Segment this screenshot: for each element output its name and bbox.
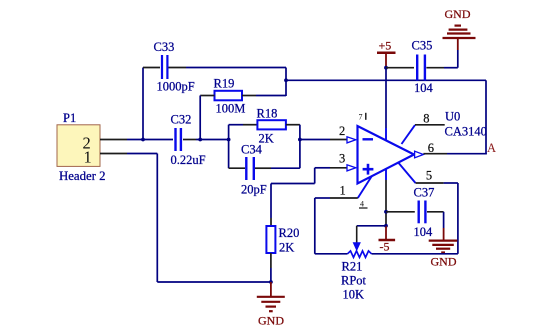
svg-text:R18: R18 xyxy=(257,107,278,121)
capacitor C34 xyxy=(241,143,267,197)
wire C37 right to gnd xyxy=(427,211,444,213)
svg-text:20pF: 20pF xyxy=(241,183,267,197)
resistor R19 xyxy=(214,77,246,116)
svg-text:4: 4 xyxy=(360,200,364,209)
svg-text:2K: 2K xyxy=(279,241,294,255)
pin 6 output wire xyxy=(423,153,447,155)
svg-text:10K: 10K xyxy=(343,288,365,302)
svg-text:C32: C32 xyxy=(171,113,192,127)
capacitor C35 xyxy=(412,39,434,96)
wire vertical x=286 C33 row to R19 row xyxy=(285,68,287,97)
node junction +5 xyxy=(384,66,388,70)
resistor R18 xyxy=(257,107,286,146)
svg-text:-5: -5 xyxy=(380,240,390,254)
pin 4 supply wire xyxy=(385,168,387,180)
wire R18 left xyxy=(229,124,243,126)
pin 8 diagonal and stub xyxy=(402,125,416,144)
svg-text:R21: R21 xyxy=(342,260,363,274)
node junction R19/main xyxy=(198,138,202,142)
header P1 xyxy=(57,111,106,183)
wire R19 right xyxy=(242,95,256,97)
wire pin1 loop down xyxy=(314,198,316,254)
svg-text:C34: C34 xyxy=(241,143,263,157)
svg-text:R20: R20 xyxy=(279,226,300,240)
svg-text:CA3140: CA3140 xyxy=(445,125,487,139)
wire feedback right vertical down to output xyxy=(485,80,487,154)
svg-text:1000pF: 1000pF xyxy=(157,80,195,94)
node junction -5 tee xyxy=(384,224,388,228)
power +5 xyxy=(377,38,396,67)
pin 1 diagonal and wire xyxy=(358,176,372,198)
pin 1 stub of P1 xyxy=(100,153,127,155)
wire pot row right to pin5 loop xyxy=(372,253,458,255)
svg-text:RPot: RPot xyxy=(341,274,367,288)
wire C34 right xyxy=(255,167,271,169)
wire main row pin2 to C32 xyxy=(127,139,173,141)
wire +5 row to C35 xyxy=(386,67,414,69)
wire C34 left xyxy=(229,167,245,169)
svg-text:7: 7 xyxy=(359,113,363,122)
svg-text:C37: C37 xyxy=(414,186,435,200)
svg-text:R19: R19 xyxy=(214,77,235,91)
potentiometer R21 xyxy=(341,226,372,302)
node junction feedback xyxy=(284,78,288,82)
node junction block left xyxy=(227,138,231,142)
wire feedback row to right edge xyxy=(286,79,486,81)
ground below R20 xyxy=(257,282,285,328)
wire vertical x=143 up to C33 row xyxy=(142,68,144,140)
pin 3 arrowhead xyxy=(347,165,356,171)
pin 2 stub of P1 xyxy=(100,139,127,141)
wire pin1 of P1 down and across xyxy=(127,153,157,155)
op-amp U0 xyxy=(358,110,487,209)
svg-text:Header 2: Header 2 xyxy=(59,169,106,183)
capacitor C37 xyxy=(414,186,435,240)
wire to op-amp pin 2 xyxy=(300,139,330,141)
wire C33 row left xyxy=(143,67,160,69)
wire pot row left xyxy=(315,253,348,255)
svg-text:8: 8 xyxy=(423,112,429,126)
wire block right vertical xyxy=(299,125,301,169)
wire R18 right xyxy=(286,124,300,126)
node junction pin2 wire xyxy=(298,138,302,142)
svg-text:104: 104 xyxy=(414,225,434,239)
resistor R20 xyxy=(266,226,299,255)
wire wiper row xyxy=(357,225,386,227)
wire R19 left xyxy=(200,95,214,97)
svg-text:GND: GND xyxy=(258,314,284,328)
ground top right (inverted) xyxy=(443,7,476,50)
svg-text:1: 1 xyxy=(84,147,92,166)
wire C32 right to block xyxy=(183,139,196,141)
node junction at x=143 main row xyxy=(141,138,145,142)
node junction C37 tee xyxy=(384,210,388,214)
capacitor C33 xyxy=(154,40,195,94)
svg-text:GND: GND xyxy=(431,255,457,269)
svg-text:A: A xyxy=(487,141,496,155)
svg-text:2: 2 xyxy=(339,124,345,138)
output arrowhead pin 6 xyxy=(415,151,424,158)
pin 2 arrowhead xyxy=(347,137,356,143)
wire C35 right to gnd stem xyxy=(426,67,444,69)
svg-text:5: 5 xyxy=(426,168,432,182)
svg-text:104: 104 xyxy=(414,81,434,95)
svg-text:100M: 100M xyxy=(216,102,246,116)
svg-text:+5: +5 xyxy=(379,38,392,52)
svg-text:0.22uF: 0.22uF xyxy=(171,153,206,167)
svg-text:1: 1 xyxy=(340,184,346,198)
ground bottom right xyxy=(429,241,458,269)
svg-text:C33: C33 xyxy=(154,40,175,54)
wire block left vertical xyxy=(228,125,230,169)
node junction bottom loop xyxy=(269,280,273,284)
svg-text:GND: GND xyxy=(445,7,471,21)
wire R20 bottom xyxy=(270,253,272,268)
svg-text:P1: P1 xyxy=(63,111,76,125)
wire op-amp pin 3 row xyxy=(315,167,330,169)
wire R19 vertical down to main row xyxy=(199,96,201,140)
pin 5 diagonal and loop xyxy=(398,162,416,183)
svg-text:C35: C35 xyxy=(412,39,433,53)
wire pin3 step horizontal xyxy=(271,183,315,185)
svg-text:U0: U0 xyxy=(445,110,460,124)
wire pin3 step vertical xyxy=(314,168,316,184)
svg-text:3: 3 xyxy=(339,152,345,166)
wire C37 row from pin4 tee xyxy=(386,211,415,213)
capacitor C32 xyxy=(171,113,206,168)
power -5 xyxy=(379,226,396,254)
wire down to R20 xyxy=(270,184,272,219)
pin 7 supply wire xyxy=(385,68,387,128)
wire C33 right to x=286 xyxy=(169,67,187,69)
